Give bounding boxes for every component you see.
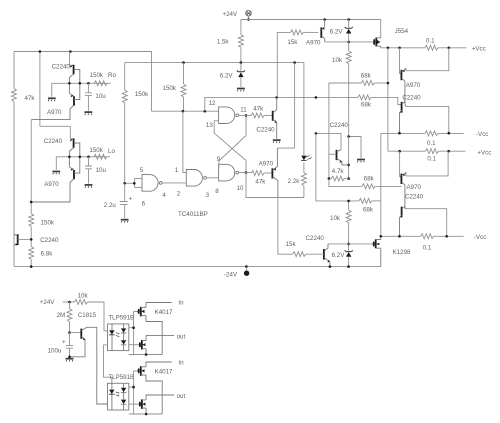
wire ground hook x361	[349, 137, 361, 159]
svg-text:150k: 150k	[135, 91, 149, 98]
ground 10u output1	[85, 112, 93, 115]
svg-text:3: 3	[206, 192, 210, 199]
resistor 10k top	[348, 42, 350, 51]
svg-text:J554: J554	[395, 28, 409, 35]
wire left rail y51.5	[14, 52, 152, 112]
node +24V top supply symbol	[246, 10, 252, 20]
resistor 2.2k	[301, 173, 306, 186]
gate U1d NAND (12,13,11)	[219, 107, 239, 124]
transistor C2240 bottom-mid	[324, 244, 330, 267]
gate U1b NAND (1,2,3)	[186, 170, 206, 187]
svg-text:TC4011BP: TC4011BP	[178, 211, 208, 218]
transistor C2240 left edge	[14, 234, 31, 246]
svg-text:68k: 68k	[364, 176, 375, 183]
transistor A970 pair1 below	[31, 83, 79, 119]
transistor A970 top-right	[400, 48, 406, 104]
svg-text:C2240: C2240	[40, 237, 59, 244]
gate U1a NAND (5,6,4)	[142, 175, 162, 192]
gate U1c NAND (9,8,10)	[219, 164, 239, 181]
svg-text:In: In	[178, 359, 184, 366]
resistor 150k (x183.5)	[183, 63, 185, 84]
svg-text:6: 6	[142, 201, 146, 208]
svg-text:1.5k: 1.5k	[217, 39, 230, 46]
svg-text:10k: 10k	[332, 57, 343, 64]
svg-text:out: out	[177, 333, 186, 340]
ground 100u	[66, 359, 74, 362]
svg-text:6.8k: 6.8k	[41, 250, 54, 257]
svg-text:68k: 68k	[361, 72, 372, 79]
zener 6.2V bottom	[345, 250, 353, 266]
wire mid link y133.4 to C2240 rm	[316, 133, 341, 149]
svg-text:15k: 15k	[287, 39, 298, 46]
svg-text:2.2u: 2.2u	[104, 202, 117, 209]
svg-text:A970: A970	[259, 160, 274, 167]
svg-text:-Vcc: -Vcc	[476, 131, 488, 138]
svg-text:C1815: C1815	[78, 312, 97, 319]
wire gate1 out to gate2 in2	[162, 182, 186, 184]
svg-text:10k: 10k	[78, 292, 89, 299]
resistor 1.5k	[240, 20, 242, 35]
svg-text:6.2V: 6.2V	[332, 252, 346, 259]
svg-text:K4017: K4017	[155, 309, 173, 316]
transistor C2240 mid	[273, 97, 277, 138]
svg-text:150k: 150k	[90, 72, 104, 79]
wire A970 low emitter loop	[406, 151, 448, 176]
svg-text:+24V: +24V	[223, 11, 238, 18]
wire source rail y47.8 to +Vcc	[380, 47, 425, 49]
resistor 150k chain	[29, 214, 34, 227]
svg-text:6.2V: 6.2V	[220, 73, 234, 80]
svg-text:In: In	[178, 300, 184, 307]
wire opto1 photo pin to gates	[129, 312, 139, 355]
svg-text:10u: 10u	[95, 93, 106, 100]
wire C2240 tr collector loop	[406, 106, 449, 133]
svg-text:10u: 10u	[96, 167, 107, 174]
resistor 10k bottom-left	[75, 300, 88, 305]
zener 6.2V left	[237, 63, 245, 87]
svg-text:150k: 150k	[41, 220, 55, 227]
resistor 150k (x124.7)	[124, 63, 126, 90]
svg-text:10k: 10k	[330, 215, 341, 222]
svg-text:11: 11	[240, 106, 247, 113]
transistor C2240 low-right	[400, 206, 406, 236]
wire A970 top collector to J554 gate	[325, 41, 374, 43]
capacitor 10u output2	[85, 157, 92, 184]
svg-text:47k: 47k	[255, 178, 266, 185]
resistor 15k bottom	[278, 253, 293, 255]
junction dots rail y19.5	[323, 18, 326, 21]
wire +Vcc lower	[388, 150, 426, 152]
resistor 150k output1	[94, 81, 107, 86]
optocoupler TLP591B #1	[108, 324, 129, 351]
resistor 47k (gate3 out)	[239, 172, 251, 174]
ground below zener left	[237, 89, 245, 92]
svg-text:A970: A970	[44, 181, 59, 188]
svg-text:47k: 47k	[253, 106, 264, 113]
wire cross-couple A (11 to 9)	[219, 115, 246, 167]
svg-text:C2240: C2240	[44, 138, 63, 145]
transistor A970 top	[321, 20, 324, 42]
svg-text:2M: 2M	[57, 312, 66, 319]
transistor C2240 right-mid	[329, 150, 349, 165]
capacitor 100u	[66, 333, 73, 357]
svg-text:2: 2	[177, 191, 181, 198]
svg-text:10: 10	[237, 185, 244, 192]
wire pair1 base node to ground	[52, 83, 70, 97]
ground C2240 mid emitter	[273, 140, 281, 143]
svg-text:2.2k: 2.2k	[288, 178, 301, 185]
wire gate2 input1 drop	[183, 111, 186, 172]
wire rail2 y62.6	[125, 62, 304, 64]
wire -Vcc bottom	[381, 235, 421, 237]
svg-text:47k: 47k	[25, 95, 36, 102]
wire gate2 out to gate3 in8	[207, 177, 219, 179]
resistor 4.7k	[331, 176, 344, 181]
svg-text:-24V: -24V	[224, 272, 238, 279]
wire cross-couple B (10 to 13)	[214, 121, 246, 173]
wire x328.9 vertical	[328, 83, 330, 179]
wire bottom rail	[14, 266, 381, 268]
svg-text:+: +	[129, 196, 133, 203]
svg-text:5: 5	[140, 167, 144, 174]
transistor A970 pair2	[31, 157, 80, 202]
svg-text:A970: A970	[306, 40, 321, 47]
svg-text:K1298: K1298	[393, 249, 411, 256]
wire A970 tr emitter loop	[406, 48, 449, 71]
svg-text:0.1: 0.1	[426, 37, 435, 44]
ground 10u output2	[85, 185, 93, 188]
transistor C2240 top-right	[398, 102, 406, 134]
wire +24V feed	[63, 301, 75, 303]
wire 15k top branch	[277, 32, 290, 97]
optocoupler TLP591B #2	[108, 383, 129, 410]
resistor 6.8k chain	[29, 247, 34, 260]
svg-text:A970: A970	[406, 82, 421, 89]
transistor K4017 #1a	[138, 303, 172, 355]
transistor J554 FET	[373, 20, 381, 48]
resistor 15k top	[290, 30, 303, 35]
transistor K4017 #1b	[129, 336, 174, 355]
svg-text:Lo: Lo	[108, 148, 115, 155]
svg-text:Ro: Ro	[108, 72, 116, 79]
svg-text:0.1: 0.1	[423, 244, 432, 251]
svg-text:0.1: 0.1	[427, 140, 436, 147]
svg-text:150k: 150k	[89, 147, 103, 154]
wire lower net ch2	[129, 413, 162, 415]
resistor 47k left	[12, 89, 17, 102]
wire gate3-out node down and across y197.5	[246, 173, 304, 255]
svg-text:C2240: C2240	[330, 122, 349, 129]
wire pair2 output y156.8	[69, 156, 110, 158]
wire left vertical x14	[13, 52, 15, 267]
ground pair2 base	[52, 172, 60, 175]
capacitor 2.2u	[120, 183, 128, 218]
ground pair1 base	[48, 98, 56, 101]
svg-text:0.1: 0.1	[427, 156, 436, 163]
svg-text:+: +	[62, 339, 66, 346]
ground hook	[357, 160, 365, 163]
wire pair2 base node to ground	[56, 157, 69, 170]
wire sense vertical x387.9	[387, 48, 389, 151]
transistor K1298 FET	[373, 236, 381, 266]
svg-text:out: out	[177, 393, 186, 400]
transistor A970 low-right	[400, 151, 406, 207]
wire rail drop x39.9	[39, 52, 41, 127]
wire C2240 low collector loop	[406, 209, 447, 237]
LED D1	[301, 155, 311, 161]
svg-text:+24V: +24V	[40, 299, 55, 306]
resistor 68k (third) to A970 low base	[329, 179, 362, 187]
svg-text:68k: 68k	[363, 206, 374, 213]
wire pair1 output y83	[69, 82, 110, 84]
wire chain x30.4	[30, 120, 32, 214]
svg-text:TLP591B: TLP591B	[108, 374, 134, 381]
svg-text:6.2V: 6.2V	[330, 29, 344, 36]
transistor C2240 pair2	[69, 138, 79, 156]
wire K1298 gate	[328, 243, 373, 245]
svg-text:1: 1	[175, 167, 179, 174]
svg-text:8: 8	[215, 188, 219, 195]
svg-text:A970: A970	[407, 184, 422, 191]
zener 6.2V top right	[345, 20, 353, 42]
wire top rail y19.5	[241, 19, 381, 21]
transistor A970 mid	[272, 148, 278, 197]
junction dots rail y62.6	[182, 61, 185, 64]
wire lower net ch1	[129, 354, 162, 356]
svg-text:K4017: K4017	[155, 369, 173, 376]
transistor C1815	[70, 327, 108, 404]
transistor K4017 #2a	[138, 362, 172, 414]
resistor 47k (gate4 out)	[239, 114, 251, 116]
resistor 10k lower	[348, 201, 350, 210]
resistor 68k (fourth)	[359, 198, 372, 203]
transistor C2240 pair1 top-left	[69, 52, 79, 84]
wire A970 mid emitter to rail2	[277, 63, 294, 149]
wire opto2 photo pin to gates	[129, 371, 139, 414]
svg-text:+Vcc: +Vcc	[472, 45, 486, 52]
svg-text:+Vcc: +Vcc	[477, 150, 491, 157]
wire gate1 tied inputs	[125, 178, 142, 187]
svg-text:C2240: C2240	[256, 126, 275, 133]
wire -Vcc upper	[381, 132, 425, 134]
capacitor 10u output1	[85, 83, 92, 111]
svg-text:100u: 100u	[48, 348, 62, 355]
wire x380.8 drain vertical	[380, 133, 382, 236]
svg-text:A970: A970	[47, 109, 62, 116]
svg-text:150k: 150k	[163, 85, 177, 92]
wire y111.2 to gate inputs	[152, 110, 219, 112]
svg-text:-Vcc: -Vcc	[474, 234, 486, 241]
svg-text:12: 12	[209, 100, 216, 107]
svg-text:C2240: C2240	[52, 64, 71, 71]
svg-text:68k: 68k	[361, 102, 372, 109]
svg-text:4: 4	[162, 192, 166, 199]
wire x315.9 down to 68k#4	[316, 133, 359, 201]
wire pair2 collector feed	[40, 126, 70, 139]
node -24V	[245, 267, 247, 271]
transistor K4017 #2b	[129, 395, 174, 414]
svg-text:C2240: C2240	[402, 94, 421, 101]
resistor 2M	[69, 302, 71, 309]
wire LED chain box1 to box2	[104, 345, 112, 383]
svg-text:C2240: C2240	[405, 194, 424, 201]
ground 2.2u	[121, 220, 129, 223]
wire x348.6 down to 4.7k node	[348, 137, 350, 179]
svg-text:TLP591B: TLP591B	[108, 314, 134, 321]
svg-text:4.7k: 4.7k	[332, 168, 345, 175]
resistor 68k (first)	[329, 82, 361, 84]
svg-text:13: 13	[206, 122, 213, 129]
resistor 150k output2	[94, 154, 107, 159]
svg-text:15k: 15k	[286, 241, 297, 248]
svg-text:C2240: C2240	[306, 235, 325, 242]
wire LED/2.2k branch x303.9	[303, 63, 305, 198]
wire feedback rail y97.4	[205, 97, 358, 111]
